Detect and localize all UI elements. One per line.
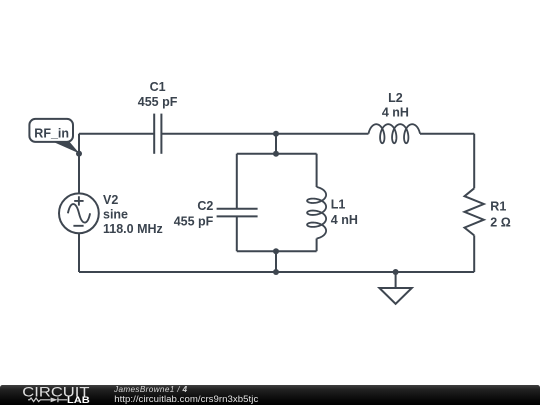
wire: right rail lower (R1 to bottom-right corner) — [473, 235, 475, 272]
net flag RF_in — [29, 119, 79, 154]
wire: bottom rail — [79, 271, 474, 273]
svg-text:455 pF: 455 pF — [138, 95, 178, 109]
label V2 name/value — [103, 193, 163, 236]
node dot RF_in — [76, 151, 82, 157]
logo diode — [51, 397, 58, 402]
svg-text:C2: C2 — [197, 199, 213, 213]
svg-text:L1: L1 — [331, 197, 346, 211]
node dot tank bottom rail — [273, 248, 279, 254]
svg-text:118.0 MHz: 118.0 MHz — [103, 222, 163, 236]
wire: tank right branch upper (to L1) — [316, 154, 318, 187]
wire: tank bottom rail — [237, 250, 317, 252]
wire: top rail left segment (RF_in corner to C1 left plate) — [79, 133, 154, 135]
svg-text:R1: R1 — [490, 200, 506, 214]
svg-text:L2: L2 — [388, 91, 403, 105]
node dot top rail / tank feed — [273, 131, 279, 137]
svg-text:LAB: LAB — [67, 395, 90, 406]
svg-text:4 nH: 4 nH — [331, 213, 358, 227]
svg-text:JamesBrowne1 / 4: JamesBrowne1 / 4 — [113, 385, 188, 394]
wire: ground stub — [395, 272, 397, 288]
wire: left rail lower (V2 bottom to bottom rail) — [78, 233, 80, 272]
label C2 name/value — [174, 199, 214, 229]
svg-text:2 Ω: 2 Ω — [490, 216, 510, 230]
voltage source V2 — [59, 193, 99, 233]
wire: tank left branch upper (to C2 top plate) — [236, 154, 238, 209]
logo resistor zigzag — [28, 398, 50, 402]
footer bar — [0, 385, 540, 406]
svg-text:V2: V2 — [103, 193, 118, 207]
wire: tank left branch lower (C2 bottom plate to tank bottom rail) — [236, 216, 238, 251]
label L2 name/value — [382, 91, 409, 120]
wire: junction stub tank bottom to bottom rail — [275, 251, 277, 272]
label C1 name/value — [138, 80, 178, 109]
wire: top rail right segment (L2 to top-right corner) — [420, 133, 474, 135]
svg-text:455 pF: 455 pF — [174, 214, 214, 228]
svg-text:4 nH: 4 nH — [382, 106, 409, 120]
wire: tank right branch lower (L1 to tank bottom rail) — [316, 239, 318, 252]
capacitor C1 — [154, 114, 161, 154]
capacitor C2 — [217, 209, 258, 217]
inductor L2 — [369, 124, 421, 143]
ground symbol — [379, 288, 411, 304]
wire: top rail middle (C1 right plate to tank junction and on to L2) — [161, 133, 368, 135]
svg-text:C1: C1 — [150, 80, 166, 94]
resistor R1 — [465, 188, 484, 235]
wire: right rail upper (corner down to R1) — [473, 134, 475, 189]
label L1 name/value — [331, 197, 358, 227]
node dot ground tap — [393, 269, 399, 275]
node dot bottom rail / tank — [273, 269, 279, 275]
label R1 name/value — [490, 200, 510, 230]
node dot tank top rail — [273, 151, 279, 157]
svg-text:sine: sine — [103, 208, 128, 222]
wire: junction stub into tank top — [275, 134, 277, 154]
wire: tank top rail — [237, 153, 317, 155]
svg-text:RF_in: RF_in — [34, 126, 69, 140]
wire: left rail upper (corner down to V2 top) — [78, 134, 80, 194]
inductor L1 — [307, 187, 326, 239]
svg-text:http://circuitlab.com/crs9rn3x: http://circuitlab.com/crs9rn3xb5tjc — [114, 394, 258, 405]
